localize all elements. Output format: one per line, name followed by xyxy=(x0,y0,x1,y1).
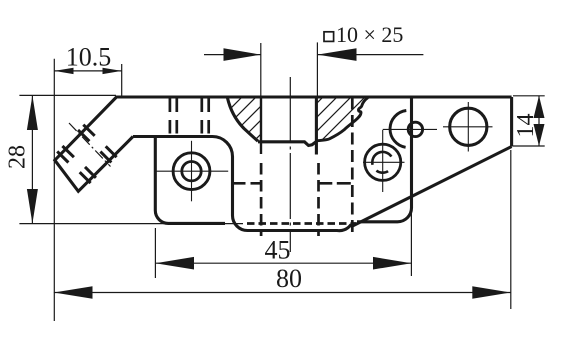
right edge xyxy=(510,97,513,147)
boss arc xyxy=(390,111,406,148)
dimension 10.5 arrows xyxy=(54,68,121,74)
dimension 10.5 extension lines xyxy=(54,59,121,321)
dimension 80 extension lines xyxy=(510,150,512,309)
right circle crosshair xyxy=(443,102,493,152)
dimension square pocket lines xyxy=(204,54,423,56)
label square 10x25 box xyxy=(324,32,334,42)
step line and left pad outline xyxy=(133,137,248,231)
right flange slant xyxy=(353,147,512,227)
arm serration strokes xyxy=(57,125,116,183)
hidden pocket bottom xyxy=(247,222,356,225)
pad hole crosshair xyxy=(156,141,228,202)
pocket left edge visible xyxy=(260,97,262,154)
hidden edge right xyxy=(351,98,354,237)
svg-text:14: 14 xyxy=(513,114,539,138)
dimension 14 arrows xyxy=(534,96,545,146)
dimension 45 line xyxy=(155,262,411,264)
center dip bottom xyxy=(248,224,354,231)
hidden horizontal right xyxy=(318,182,353,185)
top edge xyxy=(116,95,512,98)
hidden hole lines top left pair xyxy=(170,99,209,136)
right body bottom edge xyxy=(357,97,412,222)
left pad left/bottom edges xyxy=(155,137,225,224)
break line wavy edge xyxy=(316,98,368,141)
thread hole outer circle xyxy=(365,144,401,180)
arm serration centerline xyxy=(69,123,111,167)
funnel bottom xyxy=(258,142,316,146)
svg-text:80: 80 xyxy=(276,264,302,293)
pad hole inner circle xyxy=(182,162,201,181)
hidden pocket right edge xyxy=(317,163,320,236)
dimension 80 arrows xyxy=(54,286,511,299)
dimension square pocket arrows xyxy=(224,48,357,61)
svg-text:45: 45 xyxy=(265,236,291,265)
right large circle xyxy=(450,108,487,145)
angled arm outline xyxy=(55,97,133,191)
dimension 28 extension lines xyxy=(19,95,243,223)
svg-text:28: 28 xyxy=(4,145,30,169)
dimension 14 extension lines xyxy=(513,96,545,146)
pad hole outer circle xyxy=(173,153,210,190)
thread hole crosshair xyxy=(363,130,405,192)
thread hole inner arcs xyxy=(372,152,391,165)
dimension 45 extension lines xyxy=(155,209,411,278)
funnel left curve xyxy=(228,98,259,141)
dimension 14 line xyxy=(538,96,540,146)
boss small circle xyxy=(408,122,422,136)
dimension square pocket extension lines xyxy=(261,42,318,96)
boss crosshair xyxy=(383,128,437,130)
center line xyxy=(289,77,291,252)
svg-text:10.5: 10.5 xyxy=(66,43,112,72)
pocket right wall visible xyxy=(315,97,318,155)
dimension 80 line xyxy=(54,292,511,294)
dimension 10.5 line xyxy=(54,70,121,72)
dimension 28 arrows xyxy=(27,95,38,223)
dimension 45 arrows xyxy=(155,257,411,270)
dimension 28 line xyxy=(31,95,33,223)
svg-text:10 × 25: 10 × 25 xyxy=(336,22,403,47)
hidden pocket left edge xyxy=(260,163,263,236)
hidden horizontal left xyxy=(234,182,262,185)
